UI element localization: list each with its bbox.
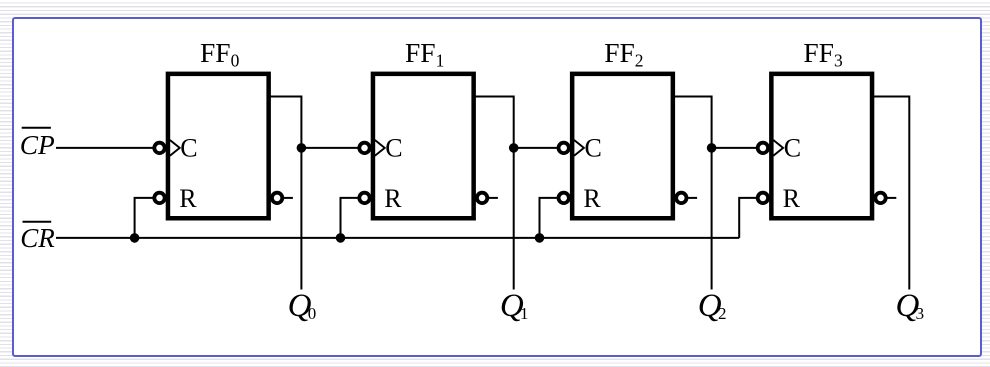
FF2 C input bubble bbox=[559, 143, 569, 153]
FF0 Qbar output bubble bbox=[272, 193, 282, 203]
FF0 clock wedge bbox=[170, 140, 180, 156]
svg-text:CR: CR bbox=[20, 223, 55, 253]
FF0 Qbar stub wire bbox=[282, 197, 293, 199]
FF1 Qbar stub wire bbox=[487, 197, 498, 199]
svg-text:CP: CP bbox=[20, 130, 55, 160]
svg-text:FF0: FF0 bbox=[200, 37, 240, 70]
CR bus junction dot 2 bbox=[535, 233, 545, 243]
svg-text:R: R bbox=[179, 184, 197, 213]
wire node Q0 to FF1 C input bbox=[301, 147, 360, 149]
CP overline bbox=[22, 127, 51, 129]
flip-flop FF0 body bbox=[168, 74, 269, 218]
FF1 C input bubble bbox=[359, 143, 369, 153]
svg-text:C: C bbox=[585, 134, 602, 163]
node Q2 junction dot bbox=[707, 143, 717, 153]
FF0 R input bubble bbox=[154, 193, 164, 203]
CR overline bbox=[23, 221, 52, 223]
FF3 R input bubble bbox=[758, 193, 768, 203]
svg-text:C: C bbox=[180, 134, 197, 163]
FF3 Qbar stub wire bbox=[885, 197, 896, 199]
svg-text:R: R bbox=[384, 184, 402, 213]
FF2 Qbar stub wire bbox=[686, 197, 697, 199]
FF1 Qbar output bubble bbox=[477, 193, 487, 203]
wire CP input bbox=[56, 147, 155, 149]
wire FF3 Q output to node Q3 and down to Q3 label bbox=[871, 97, 909, 290]
flip-flop FF2 body bbox=[572, 74, 673, 218]
svg-text:Q1: Q1 bbox=[500, 288, 529, 324]
svg-text:FF2: FF2 bbox=[604, 37, 643, 70]
svg-text:Q2: Q2 bbox=[698, 288, 727, 324]
node Q0 junction dot bbox=[297, 143, 307, 153]
svg-text:C: C bbox=[385, 134, 402, 163]
wire FF1 R input branch down to CR bus bbox=[341, 198, 361, 238]
wire FF3 R input branch down to CR bus bbox=[739, 198, 758, 238]
wire FF0 R input branch down to CR bus bbox=[135, 198, 156, 238]
FF2 clock wedge bbox=[574, 140, 584, 156]
svg-text:R: R bbox=[583, 184, 601, 213]
svg-text:R: R bbox=[783, 184, 801, 213]
FF3 Qbar output bubble bbox=[875, 193, 885, 203]
wire node Q2 to FF3 C input bbox=[712, 147, 759, 149]
svg-text:C: C bbox=[784, 134, 801, 163]
CR bus junction dot 1 bbox=[336, 233, 346, 243]
FF2 Qbar output bubble bbox=[676, 193, 686, 203]
wire FF0 Q output to node Q0 and down to Q0 label bbox=[268, 97, 302, 290]
FF1 clock wedge bbox=[375, 140, 385, 156]
wire CR input bus bbox=[56, 237, 739, 239]
svg-text:FF3: FF3 bbox=[803, 37, 843, 70]
flip-flop FF3 body bbox=[771, 74, 872, 218]
FF2 R input bubble bbox=[559, 193, 569, 203]
wire node Q1 to FF2 C input bbox=[514, 147, 560, 149]
CR bus junction dot 0 bbox=[130, 233, 140, 243]
svg-text:FF1: FF1 bbox=[405, 37, 444, 70]
wire FF2 R input branch down to CR bus bbox=[540, 198, 560, 238]
flip-flop FF1 body bbox=[373, 74, 474, 218]
FF0 C input bubble bbox=[154, 143, 164, 153]
node Q1 junction dot bbox=[509, 143, 519, 153]
svg-text:Q3: Q3 bbox=[896, 288, 925, 324]
wire FF1 Q output to node Q1 and down to Q1 label bbox=[473, 97, 514, 290]
FF1 R input bubble bbox=[359, 193, 369, 203]
svg-text:Q0: Q0 bbox=[288, 288, 317, 324]
FF3 C input bubble bbox=[758, 143, 768, 153]
wire FF2 Q output to node Q2 and down to Q2 label bbox=[672, 97, 712, 290]
FF3 clock wedge bbox=[773, 140, 783, 156]
